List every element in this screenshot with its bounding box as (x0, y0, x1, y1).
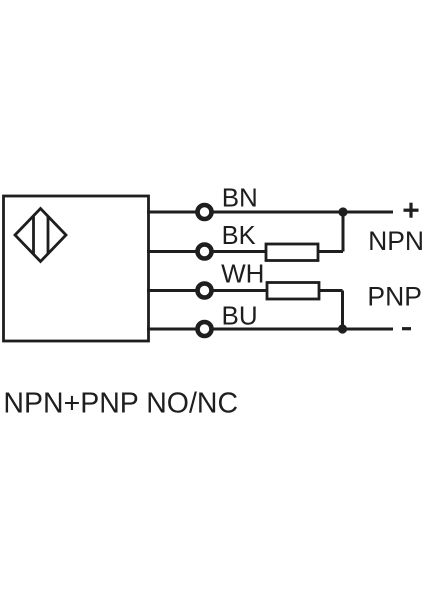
diamond right chord (47, 216, 50, 253)
wire BN horizontal (147, 211, 393, 214)
wire BK vertical up to BN junction (342, 212, 345, 252)
svg-text:NPN+PNP NO/NC: NPN+PNP NO/NC (3, 388, 238, 420)
svg-text:PNP: PNP (367, 282, 422, 312)
diamond left chord (32, 216, 35, 254)
svg-text:BK: BK (222, 222, 256, 250)
svg-text:WH: WH (221, 259, 264, 289)
wire BK from box to resistor (147, 250, 266, 253)
resistor on BK line (266, 244, 318, 261)
terminal circle BU (198, 322, 212, 336)
wire WH resistor to corner (319, 289, 343, 292)
svg-text:NPN: NPN (368, 226, 424, 256)
wire BU horizontal (147, 328, 393, 331)
sensor diamond symbol (15, 209, 66, 262)
resistor on WH line (267, 283, 319, 300)
svg-text:BU: BU (222, 301, 258, 331)
svg-text:BN: BN (222, 183, 258, 213)
wire BK resistor to corner (318, 250, 343, 253)
wire WH vertical down to BU junction (341, 291, 344, 330)
junction dot on BU line (338, 324, 347, 333)
terminal circle BN (198, 205, 212, 219)
junction dot on BN line (338, 207, 347, 216)
terminal circle WH (198, 284, 212, 298)
plus symbol (404, 203, 419, 218)
wire WH from box to resistor (147, 289, 267, 292)
terminal circle BK (198, 245, 212, 259)
minus symbol (402, 327, 411, 330)
sensor body box (4, 196, 149, 341)
